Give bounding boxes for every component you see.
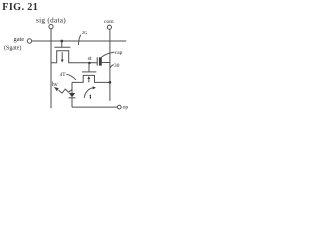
transistor 4T : channel bump and leads [72, 75, 110, 82]
terminal com [107, 25, 111, 29]
node: 2G gate tap dot [60, 40, 63, 43]
leader 4T [66, 74, 76, 80]
light emission hv : arrowhead [54, 87, 59, 91]
leader 30 [110, 65, 113, 68]
transistor 2G : channel bump [51, 51, 97, 63]
wire: bottom rail to op [72, 106, 117, 108]
transistor 2G : gate bar [54, 46, 70, 48]
svg-text:st: st [88, 56, 92, 62]
terminal gate(Sgate) [27, 39, 31, 43]
svg-text:sig (data): sig (data) [36, 16, 66, 24]
svg-text:4T: 4T [60, 72, 67, 78]
node: com / 4T junction dot [109, 81, 112, 84]
svg-text:FIG. 21: FIG. 21 [2, 2, 38, 13]
terminal op [117, 105, 121, 109]
node st dot [88, 62, 91, 65]
light emission hv : squiggle [59, 89, 72, 93]
wire: gate horizontal bus [32, 40, 127, 42]
current arrow i : arrowhead [93, 86, 96, 89]
transistor 2G : gate stub [61, 41, 63, 47]
label i : dot [90, 95, 92, 97]
capacitor cap : thick right plate [99, 57, 102, 65]
svg-text:op: op [123, 104, 129, 110]
wire: sig(data) vertical [50, 29, 52, 109]
svg-text:gate: gate [14, 36, 25, 43]
wire: capacitor right lead [102, 61, 110, 64]
svg-text:(Sgate): (Sgate) [4, 45, 21, 52]
diode 30 (light emitting) : triangle [69, 93, 75, 97]
wire: diode cathode to bottom rail [71, 98, 73, 107]
transistor 2G : channel arrow (down) [61, 52, 63, 60]
wire: diode anode drop [71, 82, 73, 93]
svg-text:2G: 2G [82, 30, 88, 35]
svg-text:cap: cap [115, 50, 123, 56]
wire: com vertical [109, 29, 111, 101]
svg-text:30: 30 [114, 63, 120, 69]
transistor 4T : channel arrow (up) [88, 78, 90, 82]
terminal sig(data) [49, 25, 53, 29]
svg-text:hν: hν [52, 82, 58, 88]
capacitor cap : left plate [96, 57, 98, 65]
transistor 4T : gate bar [82, 71, 96, 73]
current arrow i : arc [84, 88, 93, 98]
leader cap [101, 52, 114, 57]
transistor 4T : gate stub from node st [88, 63, 90, 72]
leader 2G [78, 35, 80, 45]
label i : stem [90, 96, 91, 98]
svg-text:com: com [104, 19, 114, 25]
diode 30 : cathode bar [69, 96, 76, 99]
